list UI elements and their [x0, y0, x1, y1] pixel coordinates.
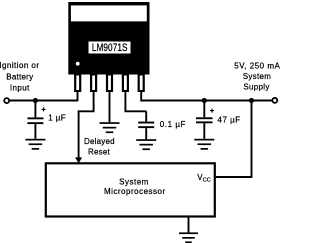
- svg-text:1 µF: 1 µF: [48, 114, 66, 123]
- svg-text:System: System: [119, 177, 149, 186]
- svg-text:Supply: Supply: [243, 83, 269, 92]
- svg-text:Input: Input: [10, 83, 30, 92]
- svg-text:47 µF: 47 µF: [218, 116, 241, 125]
- svg-text:Ignition or: Ignition or: [0, 61, 39, 70]
- svg-text:0.1 µF: 0.1 µF: [160, 120, 186, 129]
- svg-text:Microprocessor: Microprocessor: [104, 187, 166, 196]
- svg-text:Delayed: Delayed: [84, 137, 115, 146]
- svg-text:CC: CC: [203, 178, 211, 184]
- svg-text:Reset: Reset: [88, 147, 110, 156]
- svg-text:Battery: Battery: [6, 73, 33, 82]
- svg-text:System: System: [243, 72, 272, 81]
- svg-text:5V, 250 mA: 5V, 250 mA: [234, 61, 280, 70]
- svg-text:LM9071S: LM9071S: [92, 42, 128, 54]
